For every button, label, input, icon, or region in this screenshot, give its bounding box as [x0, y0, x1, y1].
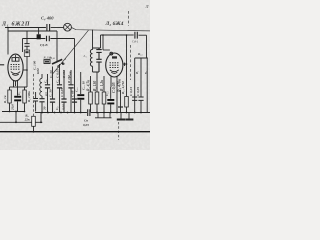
resistor R5: [90, 76, 92, 113]
capacitor C12: [132, 97, 137, 100]
wire: [26, 31, 28, 70]
wire ground rail: [0, 121, 42, 123]
chassis bar 2: [128, 113, 130, 119]
capacitor C13: [140, 58, 142, 97]
svg-text:R₂1М: R₂1М: [43, 56, 52, 60]
tube V2 grids: [110, 63, 120, 68]
wire: [99, 35, 101, 48]
svg-text:R₁₀: R₁₀: [138, 52, 143, 56]
tube V1 anode: [12, 58, 19, 62]
svg-text:0,05: 0,05: [83, 123, 89, 127]
gang diagonal: [53, 30, 89, 73]
bus line: [35, 112, 87, 114]
wire grid row: [23, 38, 75, 40]
resistor R2: [44, 60, 50, 64]
coil Sh: [41, 74, 43, 78]
svg-text:R 1М: R 1М: [62, 69, 66, 78]
resistor R10: [126, 35, 128, 97]
svg-text:к₁: к₁: [144, 71, 148, 74]
svg-text:Сн: Сн: [84, 118, 88, 122]
junction dots on bus: [7, 27, 142, 133]
anode rail: [101, 34, 127, 36]
extra rotated value labels: [10, 68, 140, 111]
switch contacts: [58, 66, 60, 68]
wire tube V1 grid out: [23, 69, 27, 71]
bus line: [91, 112, 150, 114]
IF caps: [93, 48, 100, 72]
svg-text:С₄ 400: С₄ 400: [41, 16, 54, 21]
tube V1 envelope: [8, 54, 23, 81]
svg-text:ГД-В: ГД-В: [39, 43, 48, 47]
dashed drop: [118, 122, 120, 140]
wire top bus: [5, 27, 46, 29]
labels middle columns: [44, 74, 75, 97]
tube V1 legs: [14, 80, 18, 87]
svg-text:22к: 22к: [24, 118, 30, 122]
svg-text:Шд: Шд: [36, 68, 40, 75]
svg-text:R₅ 4,7к: R₅ 4,7к: [87, 80, 91, 91]
svg-text:С₁₂: С₁₂: [105, 91, 109, 96]
dashed shield top right: [128, 11, 130, 26]
IF transformer coil L3: [92, 30, 94, 50]
tube V1 cathode: [11, 72, 20, 76]
electrolytic C10: [80, 72, 82, 94]
capacitor: [39, 99, 44, 102]
capacitor C4: [47, 24, 50, 31]
svg-text:30: 30: [43, 106, 47, 111]
svg-text:С₁₀ 10: С₁₀ 10: [82, 81, 86, 90]
wire bottom join: [2, 111, 25, 113]
wire inner loop: [8, 30, 57, 32]
column C10 top cap: [70, 70, 72, 113]
comb stubs: [95, 113, 112, 118]
trimmer box: [24, 50, 29, 56]
tube V2 grid cap: [110, 52, 113, 55]
wire to right edge: [71, 28, 150, 31]
svg-text:С 0,01: С 0,01: [129, 87, 133, 96]
capacitor Cd-1: [127, 34, 134, 36]
series capacitor Cn: [88, 109, 90, 116]
column C8 top cap: [59, 64, 61, 113]
wire long vertical: [74, 39, 76, 113]
svg-text:В₁: В₁: [135, 71, 139, 75]
capacitor grid coupling: [24, 44, 29, 47]
wire: [51, 27, 64, 29]
svg-text:С₇ 30: С₇ 30: [49, 70, 53, 78]
dashed shield mid right: [130, 45, 132, 80]
column C6 top cap: [47, 74, 49, 113]
chassis bar 1: [120, 113, 122, 119]
transformer core: [37, 34, 41, 39]
resistor R4: [23, 90, 27, 103]
svg-text:20,0: 20,0: [10, 104, 14, 111]
indicator lamp HL1: [64, 23, 72, 31]
svg-text:R₄ 100к: R₄ 100к: [27, 91, 31, 102]
svg-text:С 0,05: С 0,05: [136, 87, 140, 96]
resistor R8: [32, 116, 36, 126]
wire cathode join: [10, 86, 25, 88]
wire: [102, 35, 104, 50]
resistor R7: [103, 76, 105, 113]
bottom bus: [0, 131, 150, 133]
svg-text:С 0,05: С 0,05: [56, 69, 60, 78]
svg-text:С₇ 30: С₇ 30: [49, 89, 53, 97]
capacitor on shield column: [33, 92, 38, 112]
switch lever: [52, 59, 62, 64]
wire left drop: [7, 28, 9, 55]
svg-text:С 0,05: С 0,05: [111, 82, 116, 93]
tube V2 legs: [111, 76, 117, 112]
svg-text:Сд-1: Сд-1: [132, 39, 139, 43]
svg-text:С 68: С 68: [69, 71, 73, 78]
wire: [56, 31, 58, 63]
tube V1 grids: [11, 64, 21, 69]
tube V1 stem: [15, 55, 17, 58]
svg-text:R₇ 1,2к: R₇ 1,2к: [100, 80, 104, 91]
svg-text:R₆ 130: R₆ 130: [93, 81, 97, 91]
svg-text:R₁₁ 4,7М: R₁₁ 4,7М: [121, 80, 125, 94]
wire core tap: [38, 28, 40, 35]
resistor R3: [8, 90, 12, 103]
capacitor on long vertical: [72, 99, 77, 102]
wire tube V2 out: [123, 63, 127, 65]
tube V2 anode: [112, 56, 117, 58]
svg-text:0,05: 0,05: [62, 104, 66, 110]
capacitor C5 series: [47, 36, 50, 41]
capacitor C5 electrolytic: [17, 87, 19, 112]
svg-text:Л₁ 6Ж2П: Л₁ 6Ж2П: [1, 21, 30, 27]
wire drop: [40, 113, 42, 123]
wire drop: [15, 112, 17, 123]
output frame: [135, 58, 148, 113]
shield dashed line: [33, 74, 35, 116]
column C9 bottom cap: [63, 70, 65, 113]
svg-text:R₃ 1к: R₃ 1к: [3, 95, 7, 103]
electrolytic C11: [110, 87, 112, 99]
tube V2 cathode: [110, 70, 119, 74]
resistor R9: [120, 90, 122, 113]
resistor R6: [96, 72, 98, 113]
wire antenna stub: [0, 64, 4, 66]
svg-text:Л₂ 6Ж4: Л₂ 6Ж4: [105, 21, 124, 27]
column C7 bottom cap: [52, 67, 54, 113]
svg-text:С 0,05: С 0,05: [60, 88, 64, 97]
wire: [33, 126, 35, 131]
wire: [22, 39, 24, 53]
tube V2 envelope: [106, 53, 123, 77]
